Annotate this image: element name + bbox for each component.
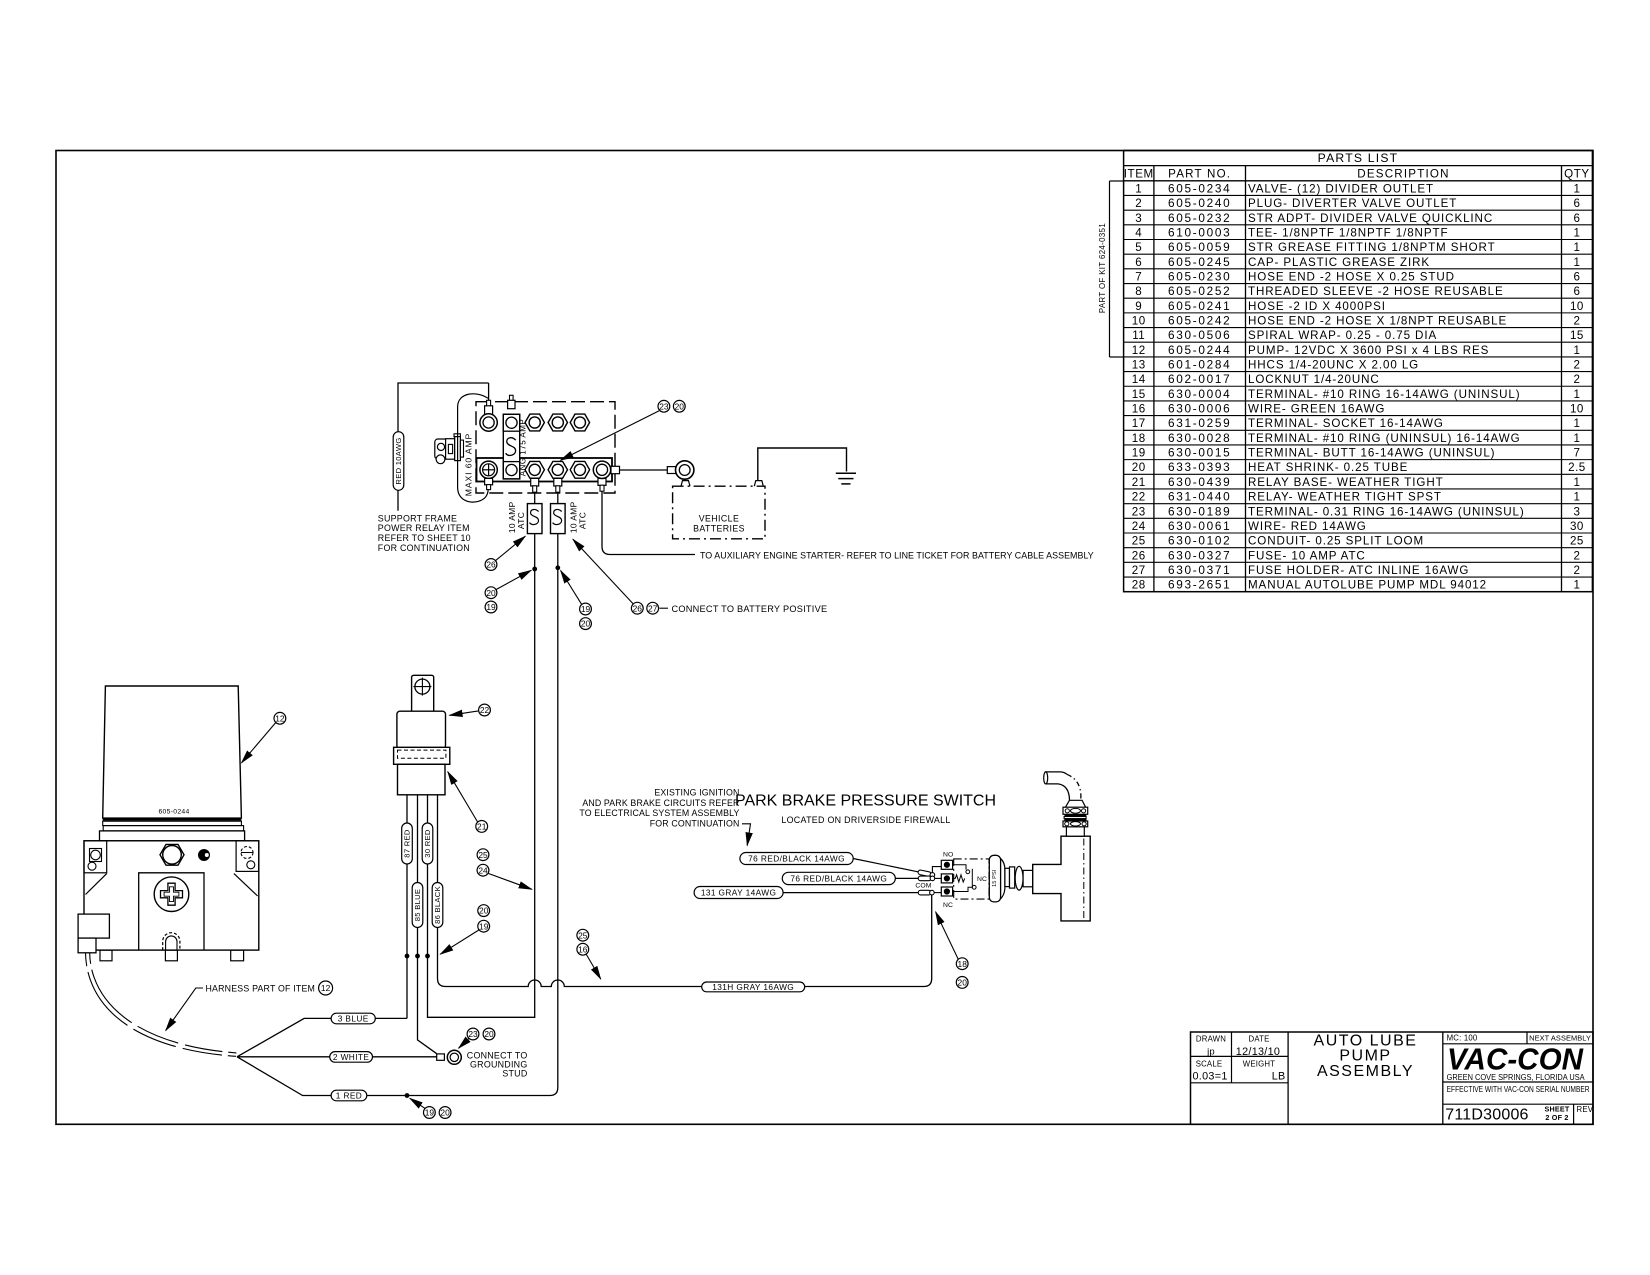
svg-text:THREADED SLEEVE -2 HOSE REUSAB: THREADED SLEEVE -2 HOSE REUSABLE — [1248, 285, 1504, 298]
svg-text:STR ADPT- DIVIDER VALVE QUICKL: STR ADPT- DIVIDER VALVE QUICKLINC — [1248, 212, 1493, 225]
svg-text:1: 1 — [1573, 344, 1580, 357]
svg-text:HHCS 1/4-20UNC X 2.00 LG: HHCS 1/4-20UNC X 2.00 LG — [1248, 359, 1419, 372]
svg-text:POWER RELAY ITEM: POWER RELAY ITEM — [378, 523, 470, 533]
svg-text:COM: COM — [915, 883, 931, 890]
svg-text:605-0252: 605-0252 — [1168, 284, 1231, 298]
svg-text:605-0240: 605-0240 — [1168, 196, 1231, 210]
svg-text:REV: REV — [1577, 1105, 1594, 1114]
svg-text:605-0234: 605-0234 — [1168, 181, 1231, 195]
wire: stud A1 to feed — [488, 383, 490, 401]
svg-text:DATE: DATE — [1248, 1035, 1269, 1044]
hex nut B3 with stud — [531, 478, 539, 492]
air hose (curved) — [1044, 772, 1081, 800]
svg-text:REFER TO SHEET 10: REFER TO SHEET 10 — [378, 533, 471, 543]
svg-text:631-0259: 631-0259 — [1168, 416, 1231, 430]
svg-text:26: 26 — [1132, 549, 1146, 562]
svg-text:DESCRIPTION: DESCRIPTION — [1357, 167, 1449, 180]
svg-text:1: 1 — [1573, 256, 1580, 269]
svg-text:20: 20 — [486, 588, 496, 598]
svg-text:1: 1 — [1573, 417, 1580, 430]
svg-text:15: 15 — [1132, 388, 1146, 401]
svg-text:FOR CONTINUATION: FOR CONTINUATION — [650, 818, 740, 828]
svg-text:1: 1 — [1573, 182, 1580, 195]
terminal stud A1 — [480, 400, 497, 431]
svg-text:25: 25 — [478, 850, 488, 860]
svg-text:22: 22 — [1132, 491, 1146, 504]
svg-text:1: 1 — [1135, 182, 1142, 195]
svg-text:ATC: ATC — [516, 512, 526, 529]
pressure switch terminals NO/COM/NC — [915, 851, 953, 909]
title: park brake pressure switch — [735, 793, 996, 826]
svg-text:21: 21 — [1132, 476, 1146, 489]
wire 86 BLACK / 131H GRAY 16AWG run — [438, 795, 932, 987]
svg-text:2 OF 2: 2 OF 2 — [1545, 1113, 1568, 1122]
svg-text:605-0242: 605-0242 — [1168, 313, 1231, 327]
hex nut A4 — [548, 414, 567, 431]
svg-text:MAXI 60 AMP: MAXI 60 AMP — [463, 433, 473, 496]
svg-text:20: 20 — [440, 1108, 450, 1118]
svg-text:HOSE -2 ID X 4000PSI: HOSE -2 ID X 4000PSI — [1248, 300, 1386, 313]
parts list text — [1124, 151, 1590, 591]
svg-text:19: 19 — [479, 921, 489, 931]
wire: battery negative to ground — [758, 448, 847, 481]
svg-text:26: 26 — [486, 560, 496, 570]
svg-text:CONNECT TO BATTERY POSITIVE: CONNECT TO BATTERY POSITIVE — [672, 604, 828, 614]
svg-text:630-0004: 630-0004 — [1168, 387, 1231, 401]
label RED 10AWG — [393, 432, 404, 491]
svg-text:WIRE- GREEN 16AWG: WIRE- GREEN 16AWG — [1248, 403, 1385, 416]
svg-text:3: 3 — [1573, 505, 1580, 518]
callout 26 (fuse F1) — [485, 536, 525, 570]
svg-text:2: 2 — [1573, 359, 1580, 372]
svg-text:PUMP: PUMP — [1339, 1048, 1391, 1065]
svg-text:605-0244: 605-0244 — [1168, 343, 1231, 357]
vehicle batteries box — [673, 481, 765, 539]
svg-text:11: 11 — [1132, 329, 1145, 342]
svg-text:12: 12 — [1132, 344, 1146, 357]
svg-text:VALVE- (12) DIVIDER OUTLET: VALVE- (12) DIVIDER OUTLET — [1248, 182, 1434, 195]
svg-text:TEE- 1/8NPTF 1/8NPTF 1/8NPTF: TEE- 1/8NPTF 1/8NPTF 1/8NPTF — [1248, 226, 1448, 239]
svg-text:24: 24 — [1132, 520, 1146, 533]
drawing border frame — [56, 151, 1593, 1125]
svg-text:630-0327: 630-0327 — [1168, 548, 1231, 562]
svg-text:14: 14 — [1132, 373, 1146, 386]
callout 18 20 (switch wire splice) — [936, 912, 969, 989]
svg-text:CONDUIT- 0.25 SPLIT LOOM: CONDUIT- 0.25 SPLIT LOOM — [1248, 535, 1424, 548]
svg-text:76 RED/BLACK 14AWG: 76 RED/BLACK 14AWG — [790, 873, 887, 883]
wire 2 WHITE — [237, 1056, 437, 1058]
hex nut B5 — [570, 461, 589, 478]
callout 21 (relay base) — [448, 772, 488, 833]
svg-text:DRAWN: DRAWN — [1196, 1035, 1226, 1044]
svg-text:NO: NO — [943, 851, 953, 858]
svg-text:87 RED: 87 RED — [403, 829, 412, 858]
svg-text:FOR CONTINUATION: FOR CONTINUATION — [378, 543, 470, 553]
svg-text:CAP- PLASTIC GREASE ZIRK: CAP- PLASTIC GREASE ZIRK — [1248, 256, 1430, 269]
label 87 RED — [402, 823, 413, 864]
ring terminal (grounding stud) — [437, 1050, 462, 1064]
svg-text:15 PSI: 15 PSI — [992, 869, 998, 887]
terminal block dashed outline — [476, 402, 615, 493]
terminal stud A2 (fuse top) — [508, 395, 515, 408]
label 85 BLUE — [412, 883, 423, 928]
note: connect to grounding stud — [467, 1051, 528, 1079]
svg-text:9: 9 — [1135, 300, 1142, 313]
hex nut B4 — [548, 461, 567, 478]
svg-text:10: 10 — [1132, 314, 1146, 327]
hex nut B4 with stud — [554, 478, 562, 492]
svg-text:711D30006: 711D30006 — [1445, 1107, 1528, 1124]
svg-text:HEAT SHRINK- 0.25 TUBE: HEAT SHRINK- 0.25 TUBE — [1248, 461, 1408, 474]
svg-text:27: 27 — [1132, 564, 1146, 577]
svg-text:27: 27 — [648, 603, 658, 613]
svg-text:18: 18 — [1132, 432, 1146, 445]
svg-text:605-0244: 605-0244 — [158, 809, 189, 816]
parts list table grid — [1124, 151, 1593, 592]
terminal stud B6 — [593, 461, 619, 491]
svg-text:TERMINAL- SOCKET 16-14AWG: TERMINAL- SOCKET 16-14AWG — [1248, 417, 1444, 430]
svg-text:85 BLUE: 85 BLUE — [413, 889, 422, 922]
svg-text:19: 19 — [581, 604, 591, 614]
svg-text:19: 19 — [1132, 447, 1146, 460]
svg-text:7: 7 — [1135, 270, 1142, 283]
svg-text:2: 2 — [1573, 373, 1580, 386]
svg-text:6: 6 — [1573, 212, 1580, 225]
svg-text:131H GRAY 16AWG: 131H GRAY 16AWG — [712, 982, 794, 992]
svg-text:5: 5 — [1135, 241, 1142, 254]
svg-text:1: 1 — [1573, 579, 1580, 592]
wire: B6 down to auxiliary engine starter — [602, 492, 695, 555]
svg-text:605-0241: 605-0241 — [1168, 299, 1231, 313]
svg-text:VEHICLE: VEHICLE — [699, 513, 739, 523]
svg-text:PART NO.: PART NO. — [1168, 167, 1231, 180]
svg-text:TERMINAL- BUTT 16-14AWG (UNINS: TERMINAL- BUTT 16-14AWG (UNINSUL) — [1248, 447, 1495, 460]
svg-text:12/13/10: 12/13/10 — [1236, 1046, 1280, 1058]
svg-text:0.03=1: 0.03=1 — [1193, 1071, 1228, 1083]
svg-text:STR GREASE FITTING 1/8NPTM SHO: STR GREASE FITTING 1/8NPTM SHORT — [1248, 241, 1496, 254]
svg-text:630-0015: 630-0015 — [1168, 446, 1231, 460]
wire 85 BLUE from relay to grounding ring — [418, 795, 437, 1054]
svg-text:EFFECTIVE WITH VAC-CON SERIAL: EFFECTIVE WITH VAC-CON SERIAL NUMBER — [1447, 1085, 1590, 1094]
svg-text:EXISTING IGNITION: EXISTING IGNITION — [654, 788, 739, 798]
svg-text:6: 6 — [1573, 197, 1580, 210]
svg-text:1: 1 — [1573, 241, 1580, 254]
callout 23 20 (bus bar terminal) — [561, 400, 686, 460]
svg-text:2: 2 — [1573, 549, 1580, 562]
svg-text:2: 2 — [1573, 314, 1580, 327]
svg-text:TO AUXILIARY ENGINE STARTER- R: TO AUXILIARY ENGINE STARTER- REFER TO LI… — [700, 550, 1094, 560]
svg-text:2: 2 — [1135, 197, 1142, 210]
svg-text:ITEM: ITEM — [1124, 167, 1154, 180]
splice junction dots (items 19/20) — [405, 954, 429, 958]
fuse F2 10 AMP ATC — [551, 504, 566, 534]
svg-text:23: 23 — [659, 401, 669, 411]
wire 87 RED from relay — [406, 795, 408, 1019]
hex nut A5 — [570, 414, 589, 431]
svg-text:10: 10 — [1570, 300, 1584, 313]
svg-text:20: 20 — [958, 978, 968, 988]
svg-text:20: 20 — [479, 906, 489, 916]
svg-text:22: 22 — [480, 705, 490, 715]
svg-text:TERMINAL- #10 RING (UNINSUL) 1: TERMINAL- #10 RING (UNINSUL) 16-14AWG — [1248, 432, 1521, 445]
wire: 1 RED / fuse F2 to bus bar B4 — [237, 492, 558, 1095]
pump 605-0244 (item 12) — [78, 686, 259, 961]
screw terminal B1 — [480, 461, 497, 490]
wire: RED 10AWG feed from support frame relay — [398, 383, 489, 511]
wire 76 RED/BLACK 14AWG (to COM) — [782, 872, 941, 884]
svg-text:TERMINAL- 0.31 RING 16-14AWG (: TERMINAL- 0.31 RING 16-14AWG (UNINSUL) — [1248, 505, 1525, 518]
fuse holder MAXI 60 AMP — [435, 434, 464, 464]
callout 20 19 (splice on F1 wire) — [485, 567, 536, 613]
air line T-fitting — [1033, 836, 1091, 921]
svg-text:RELAY BASE- WEATHER TIGHT: RELAY BASE- WEATHER TIGHT — [1248, 476, 1444, 489]
label 86 BLACK — [432, 883, 443, 928]
svg-text:1: 1 — [1573, 432, 1580, 445]
pressure switch fittings — [1001, 859, 1033, 899]
svg-text:12: 12 — [321, 983, 331, 993]
note: harness part of item 12 — [166, 981, 333, 1031]
svg-text:PARK BRAKE PRESSURE SWITCH: PARK BRAKE PRESSURE SWITCH — [735, 793, 996, 810]
svg-text:TO ELECTRICAL SYSTEM ASSEMBLY: TO ELECTRICAL SYSTEM ASSEMBLY — [579, 808, 739, 818]
svg-text:630-0371: 630-0371 — [1168, 563, 1231, 577]
wire 76 RED/BLACK 14AWG (to NO) — [740, 853, 941, 878]
svg-text:RELAY- WEATHER TIGHT SPST: RELAY- WEATHER TIGHT SPST — [1248, 491, 1442, 504]
pressure switch flange 15 PSI — [989, 855, 1000, 902]
svg-text:15: 15 — [1570, 329, 1584, 342]
svg-text:SPIRAL WRAP- 0.25 - 0.75 DIA: SPIRAL WRAP- 0.25 - 0.75 DIA — [1248, 329, 1437, 342]
svg-text:3: 3 — [1135, 212, 1142, 225]
svg-text:610-0003: 610-0003 — [1168, 225, 1231, 239]
label 2 WHITE — [330, 1052, 373, 1063]
svg-text:PARTS LIST: PARTS LIST — [1318, 151, 1399, 165]
svg-text:3 BLUE: 3 BLUE — [338, 1014, 369, 1024]
svg-text:1: 1 — [1573, 491, 1580, 504]
callout 22 (relay) — [450, 704, 491, 716]
wire: 30 RED relay to fuse F1 to bus bar B3 — [428, 492, 535, 1017]
harness sheath from pump — [86, 953, 237, 1056]
label 3 BLUE — [331, 1013, 375, 1024]
svg-text:1: 1 — [1573, 226, 1580, 239]
label 1 RED — [331, 1090, 367, 1101]
svg-text:630-0061: 630-0061 — [1168, 519, 1231, 533]
label 30 RED — [422, 823, 433, 864]
svg-text:631-0440: 631-0440 — [1168, 490, 1231, 504]
svg-text:1: 1 — [1573, 476, 1580, 489]
svg-text:24: 24 — [478, 865, 488, 875]
hex nut A3 — [525, 414, 544, 431]
svg-text:RED 10AWG: RED 10AWG — [394, 437, 403, 484]
svg-text:2.5: 2.5 — [1568, 461, 1586, 474]
svg-text:20: 20 — [581, 619, 591, 629]
svg-text:630-0028: 630-0028 — [1168, 431, 1231, 445]
svg-text:2 WHITE: 2 WHITE — [333, 1052, 370, 1062]
svg-text:605-0232: 605-0232 — [1168, 211, 1231, 225]
svg-text:20: 20 — [1132, 461, 1146, 474]
svg-text:86 BLACK: 86 BLACK — [433, 886, 442, 924]
svg-text:13: 13 — [1132, 359, 1146, 372]
fuse ANG 175 AMP — [503, 414, 519, 479]
svg-text:WIRE- RED 14AWG: WIRE- RED 14AWG — [1248, 520, 1367, 533]
svg-text:26: 26 — [633, 603, 643, 613]
callout 25 16 (gray wire) — [577, 929, 601, 979]
svg-text:131 GRAY 14AWG: 131 GRAY 14AWG — [701, 888, 777, 898]
svg-text:SCALE: SCALE — [1196, 1060, 1223, 1069]
svg-text:12: 12 — [275, 713, 285, 723]
svg-text:630-0189: 630-0189 — [1168, 504, 1231, 518]
svg-text:6: 6 — [1573, 270, 1580, 283]
wire: loop from stud A1 to screw terminal B1 — [458, 394, 489, 502]
svg-text:GREEN COVE SPRINGS, FLORIDA US: GREEN COVE SPRINGS, FLORIDA USA — [1447, 1072, 1585, 1082]
svg-text:601-0284: 601-0284 — [1168, 358, 1231, 372]
svg-text:16: 16 — [578, 944, 588, 954]
svg-text:6: 6 — [1573, 285, 1580, 298]
svg-text:4: 4 — [1135, 226, 1142, 239]
svg-text:FUSE HOLDER- ATC INLINE 16AWG: FUSE HOLDER- ATC INLINE 16AWG — [1248, 564, 1469, 577]
pressure switch body (dashed) with contacts — [953, 859, 989, 899]
svg-text:jp: jp — [1206, 1047, 1215, 1058]
hex nut B3 — [525, 461, 544, 478]
svg-text:25: 25 — [578, 930, 588, 940]
svg-text:1 RED: 1 RED — [336, 1091, 362, 1101]
svg-text:6: 6 — [1135, 256, 1142, 269]
callout 26 27 connect to battery positive — [573, 539, 827, 614]
svg-text:633-0393: 633-0393 — [1168, 460, 1231, 474]
svg-text:PLUG- DIVERTER VALVE OUTLET: PLUG- DIVERTER VALVE OUTLET — [1248, 197, 1457, 210]
svg-text:18: 18 — [958, 959, 968, 969]
svg-text:19: 19 — [425, 1108, 435, 1118]
svg-text:HOSE END -2 HOSE X 0.25 STUD: HOSE END -2 HOSE X 0.25 STUD — [1248, 270, 1455, 283]
ring terminal (battery positive) — [667, 461, 694, 479]
svg-text:20: 20 — [675, 401, 685, 411]
svg-text:23: 23 — [468, 1029, 478, 1039]
callout 20 19 (relay pigtail splices) — [440, 905, 489, 955]
svg-text:630-0439: 630-0439 — [1168, 475, 1231, 489]
svg-text:7: 7 — [1573, 447, 1580, 460]
title block text — [1193, 1033, 1594, 1124]
kit bracket: PART OF KIT 624-0351 (items 1-12) — [1098, 181, 1124, 357]
fuse F1 10 AMP ATC — [527, 504, 542, 534]
callout 19 20 (1 RED splice) — [410, 1098, 451, 1118]
svg-text:BATTERIES: BATTERIES — [693, 523, 745, 533]
svg-text:20: 20 — [484, 1029, 494, 1039]
label 10 AMP ATC (right) — [569, 501, 588, 533]
svg-text:630-0006: 630-0006 — [1168, 402, 1231, 416]
air hose fittings stack — [1063, 800, 1088, 836]
relay items 21/22 — [394, 675, 450, 795]
svg-text:8: 8 — [1135, 285, 1142, 298]
svg-text:NC: NC — [943, 902, 953, 909]
svg-text:ATC: ATC — [578, 512, 588, 529]
junction dot on 1 RED — [405, 1094, 409, 1098]
bus bar — [477, 458, 613, 482]
svg-text:NC: NC — [977, 876, 987, 883]
svg-text:PUMP- 12VDC X 3600 PSI x 4 LBS: PUMP- 12VDC X 3600 PSI x 4 LBS RES — [1248, 344, 1489, 357]
wire: B6 to battery ring terminal — [620, 469, 668, 471]
svg-text:1: 1 — [1573, 388, 1580, 401]
svg-text:LOCKNUT 1/4-20UNC: LOCKNUT 1/4-20UNC — [1248, 373, 1380, 386]
svg-text:SUPPORT FRAME: SUPPORT FRAME — [378, 513, 457, 523]
svg-text:605-0230: 605-0230 — [1168, 269, 1231, 283]
svg-text:HARNESS PART OF ITEM: HARNESS PART OF ITEM — [206, 984, 316, 994]
callout 19 20 (splice on F2 wire) — [556, 566, 592, 630]
note: existing ignition and park brake circuits — [579, 788, 750, 846]
svg-text:16: 16 — [1132, 403, 1146, 416]
wire 131 GRAY 14AWG (to NC) — [694, 887, 941, 899]
note: support frame power relay — [378, 513, 471, 553]
svg-text:ASSEMBLY: ASSEMBLY — [1317, 1063, 1414, 1080]
svg-text:25: 25 — [1132, 535, 1146, 548]
svg-text:LOCATED ON DRIVERSIDE FIREWALL: LOCATED ON DRIVERSIDE FIREWALL — [781, 815, 950, 825]
svg-text:19: 19 — [486, 602, 496, 612]
svg-text:TERMINAL- #10 RING 16-14AWG (U: TERMINAL- #10 RING 16-14AWG (UNINSUL) — [1248, 388, 1521, 401]
label 10 AMP ATC (left) — [507, 501, 526, 533]
svg-text:MANUAL AUTOLUBE PUMP MDL 94012: MANUAL AUTOLUBE PUMP MDL 94012 — [1248, 579, 1487, 592]
svg-text:21: 21 — [477, 822, 487, 832]
ground symbol — [836, 473, 856, 484]
svg-text:HOSE END -2 HOSE X 1/8NPT REUS: HOSE END -2 HOSE X 1/8NPT REUSABLE — [1248, 314, 1507, 327]
svg-text:630-0102: 630-0102 — [1168, 534, 1231, 548]
label 131H GRAY 16AWG — [702, 982, 805, 992]
svg-text:630-0506: 630-0506 — [1168, 328, 1231, 342]
svg-text:STUD: STUD — [502, 1069, 527, 1079]
svg-text:17: 17 — [1132, 417, 1146, 430]
svg-text:693-2651: 693-2651 — [1168, 578, 1231, 592]
callout 23 20 (grounding ring) — [459, 1028, 495, 1048]
svg-text:PART OF KIT 624-0351: PART OF KIT 624-0351 — [1098, 223, 1107, 313]
svg-text:LB: LB — [1272, 1071, 1286, 1083]
svg-text:25: 25 — [1570, 535, 1584, 548]
svg-text:23: 23 — [1132, 505, 1146, 518]
callout 12 (pump) — [242, 712, 286, 762]
svg-text:AND PARK BRAKE CIRCUITS REFER: AND PARK BRAKE CIRCUITS REFER — [582, 798, 739, 808]
svg-text:10: 10 — [1570, 403, 1584, 416]
callout 25 24 (wire loom) — [477, 849, 532, 890]
title block frame — [1191, 1032, 1594, 1124]
svg-text:FUSE- 10 AMP ATC: FUSE- 10 AMP ATC — [1248, 549, 1366, 562]
svg-text:605-0059: 605-0059 — [1168, 240, 1231, 254]
svg-text:76 RED/BLACK 14AWG: 76 RED/BLACK 14AWG — [748, 854, 845, 864]
svg-text:605-0245: 605-0245 — [1168, 255, 1231, 269]
svg-text:30: 30 — [1570, 520, 1584, 533]
svg-text:WEIGHT: WEIGHT — [1243, 1060, 1275, 1069]
svg-text:2: 2 — [1573, 564, 1580, 577]
wire 3 BLUE — [237, 1018, 407, 1056]
svg-text:28: 28 — [1132, 579, 1146, 592]
svg-text:QTY: QTY — [1564, 167, 1590, 180]
svg-text:602-0017: 602-0017 — [1168, 372, 1231, 386]
svg-text:30 RED: 30 RED — [423, 829, 432, 858]
